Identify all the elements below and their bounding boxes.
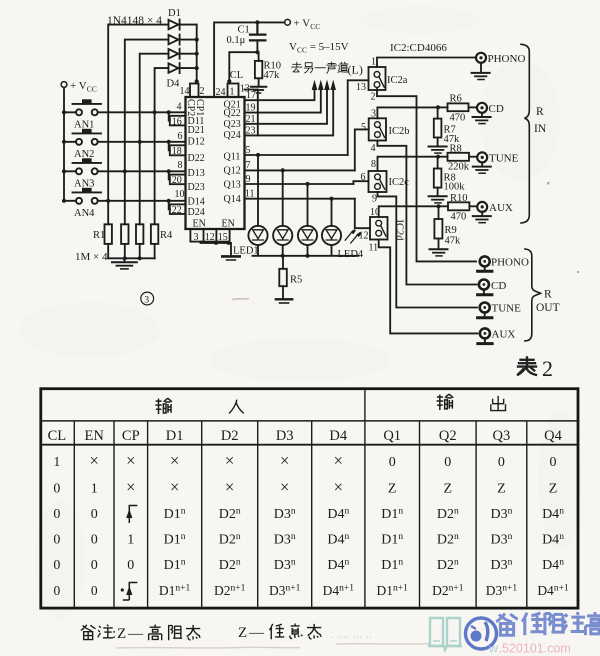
svg-text:1: 1: [91, 481, 98, 496]
LED LED2: [273, 226, 292, 245]
jack TUNE input: [477, 152, 487, 162]
junction dots on cathode bus: [195, 38, 199, 84]
svg-text:47k: 47k: [445, 236, 462, 247]
junction dot below C1: [255, 50, 259, 54]
right pin ladder boxes 17 19 21 23: [245, 90, 258, 137]
wire IC2d pin11 to AUX output: [379, 240, 478, 334]
IC U1 internal pin names: [185, 99, 241, 230]
wire IC2c control from Q13: [353, 181, 368, 184]
svg-text:1: 1: [371, 57, 376, 68]
ground R5: [276, 299, 292, 303]
table data row 5: [53, 558, 564, 574]
label AUX output: [492, 329, 516, 341]
pin 9 label: [372, 194, 377, 205]
label TUNE output: [492, 303, 522, 315]
svg-text:1: 1: [230, 87, 235, 98]
svg-text:2: 2: [200, 86, 205, 97]
wire LED4 from Q14: [331, 199, 333, 226]
svg-text:AN4: AN4: [74, 208, 95, 219]
svg-text:D14: D14: [188, 196, 205, 207]
jack PHONO output: [480, 256, 490, 266]
pushbutton AN1: [64, 99, 185, 115]
diode D3: [169, 49, 197, 59]
label TUNE input: [489, 153, 519, 165]
label PHONO input: [488, 53, 526, 65]
jack CD input: [477, 103, 487, 113]
wire IC2b control from Q12: [355, 129, 369, 170]
svg-text:Q13: Q13: [224, 180, 241, 191]
svg-text:1: 1: [53, 455, 60, 470]
ground R8 vertical: [429, 196, 447, 203]
pin box 22: [170, 204, 186, 216]
wire IC2b pin3 to R6 junction: [377, 107, 438, 118]
label AN1: [74, 120, 94, 131]
svg-text:EN: EN: [85, 428, 105, 444]
svg-text:R8: R8: [450, 144, 462, 155]
svg-text:Q24: Q24: [224, 130, 241, 141]
label R OUT: [536, 289, 560, 315]
svg-text:CD: CD: [491, 280, 506, 292]
svg-text:3: 3: [371, 108, 376, 119]
svg-text:×: ×: [334, 477, 343, 496]
svg-text:0: 0: [53, 558, 60, 573]
ground AUX input: [473, 212, 491, 223]
svg-text:10: 10: [175, 189, 185, 200]
svg-text:TUNE: TUNE: [492, 303, 522, 315]
ground CD input: [473, 113, 491, 124]
svg-text:×: ×: [225, 451, 234, 470]
svg-text:470: 470: [450, 113, 466, 124]
pin number 9: [246, 174, 251, 185]
svg-text:0: 0: [389, 455, 396, 470]
svg-text:D12: D12: [188, 137, 205, 148]
svg-text:Q23: Q23: [224, 119, 241, 130]
label R10: [264, 61, 282, 72]
watermark open book icon: [428, 618, 462, 650]
label 0.1u: [227, 35, 246, 46]
table data row 6: [54, 583, 98, 598]
faint specks: [547, 182, 579, 273]
ground AUX output: [478, 338, 492, 343]
pin 2 label: [371, 92, 376, 103]
svg-text:IC2:CD4066: IC2:CD4066: [390, 42, 447, 54]
svg-text:4: 4: [177, 102, 182, 113]
svg-text:PHONO: PHONO: [488, 53, 526, 65]
watermark CJK characters: [496, 612, 600, 635]
svg-text:×: ×: [225, 477, 234, 496]
table 2 outer border: [41, 389, 578, 608]
label D1: [168, 8, 181, 19]
svg-text:Q11: Q11: [224, 152, 241, 163]
ground for EN pins: [222, 256, 239, 260]
table column header row: [48, 428, 563, 444]
svg-text:Z: Z: [388, 481, 397, 496]
diode D2: [169, 35, 197, 45]
junction dots LED bus: [281, 254, 310, 258]
svg-text:0: 0: [498, 455, 505, 470]
label R7: [444, 125, 456, 136]
svg-text:D1: D1: [168, 8, 181, 19]
label 100k: [444, 182, 466, 193]
label R5: [290, 275, 302, 286]
svg-text:Z: Z: [238, 625, 247, 641]
ground TUNE output: [478, 313, 492, 318]
pin box 14/2 on IC top: [180, 84, 205, 98]
label AN2: [74, 149, 94, 160]
pin box 16: [170, 116, 186, 128]
junction dot above pin1 box: [227, 79, 231, 83]
pin number 4: [177, 102, 182, 113]
label IC2d vertical: [394, 220, 405, 242]
svg-text:D3: D3: [276, 428, 294, 444]
pin 8 label: [371, 159, 376, 170]
pin number 11: [245, 189, 255, 200]
resistor R7: [434, 107, 442, 146]
svg-text:×: ×: [90, 451, 99, 470]
watermark url text: [488, 642, 571, 656]
svg-text:15: 15: [218, 232, 228, 243]
svg-text:0: 0: [91, 583, 98, 598]
table column lines: [74, 390, 527, 608]
ground below R1-R4: [112, 258, 137, 269]
svg-text:6: 6: [178, 131, 183, 142]
pin 11 label: [369, 243, 379, 254]
svg-text:18: 18: [172, 146, 182, 157]
faint ghost print: [330, 626, 372, 641]
svg-text:(L): (L): [348, 63, 363, 77]
resistor R3: [136, 224, 143, 258]
svg-text:D4: D4: [167, 79, 181, 90]
svg-text:CP1: CP1: [194, 99, 205, 116]
svg-text:4: 4: [371, 143, 376, 154]
svg-text:13: 13: [356, 82, 366, 93]
table header output label CJK: [437, 394, 506, 411]
wire column 4 from D4 anode to R4: [155, 68, 169, 224]
label 47k: [444, 134, 461, 145]
label 470: [451, 212, 467, 223]
label 1M x 4: [75, 251, 108, 263]
table data row 1: [53, 451, 556, 470]
resistor R9: [434, 206, 442, 249]
svg-text:0: 0: [54, 583, 61, 598]
svg-text::: :: [112, 626, 116, 642]
wire Q14 from IC1 pin 11: [245, 198, 355, 200]
wire Q23 pin 21 to channel L arrow: [245, 80, 330, 124]
ground below R10: [251, 87, 266, 93]
table data row 3: [53, 507, 97, 522]
watermark circle logo: [466, 618, 497, 649]
resistor R2: [121, 224, 128, 258]
pin number 7: [246, 160, 251, 171]
svg-text:IC2a: IC2a: [387, 75, 408, 86]
svg-text:470: 470: [451, 212, 467, 223]
svg-text:LED4: LED4: [338, 249, 364, 260]
resistor R8 horizontal: [438, 153, 476, 161]
label 470: [450, 113, 466, 124]
wire Q11 from IC1 pin 5: [245, 154, 348, 156]
wire diode cathode bus: [196, 25, 198, 84]
wire Q13 from IC1 pin 9: [245, 183, 354, 185]
label D4: [167, 79, 181, 90]
table data row 4: [53, 532, 564, 548]
svg-text:16: 16: [172, 116, 182, 127]
pin boxes 3 12 15 on IC bottom: [190, 229, 229, 243]
wire LED2 from Q12: [282, 170, 284, 225]
svg-text:2: 2: [542, 356, 553, 381]
pin 13 label: [356, 82, 366, 93]
svg-text:D24: D24: [188, 207, 205, 218]
label AUX input: [489, 202, 513, 214]
svg-text:.520101.com: .520101.com: [499, 642, 571, 656]
wire tie pin8 to pin20 box: [169, 171, 170, 179]
wire LED cathode bus: [253, 245, 359, 256]
wire Q12 from IC1 pin 7: [245, 169, 355, 171]
svg-text:×: ×: [280, 451, 289, 470]
svg-text:3: 3: [194, 232, 199, 243]
wire IC2a control from Q11: [348, 80, 369, 155]
Vcc terminal left: [61, 80, 97, 94]
label R IN: [534, 106, 547, 135]
pin 6 label: [361, 172, 366, 183]
resistor R10 horizontal: [439, 202, 477, 210]
LED4 light emission arrows: [345, 229, 361, 243]
pin box 1 on IC top with labels 24 and 13: [216, 84, 250, 99]
label R6: [450, 94, 462, 105]
pin 10 label: [370, 207, 380, 218]
label R9: [445, 225, 457, 236]
wire IC2b pin4 to CD output: [377, 141, 476, 285]
svg-text:0: 0: [91, 533, 98, 548]
junction dots on Vcc bus: [62, 110, 66, 203]
label 220k: [448, 162, 470, 173]
label LED1: [233, 246, 259, 257]
jack AUX output: [480, 328, 490, 338]
svg-text:Q12: Q12: [224, 166, 241, 177]
svg-text:CP: CP: [122, 428, 140, 444]
analog switch IC2c: [369, 171, 387, 192]
svg-text:220k: 220k: [448, 162, 470, 173]
svg-text:Q22: Q22: [224, 108, 241, 119]
svg-text:×: ×: [334, 451, 343, 470]
label Vcc range: [289, 41, 349, 55]
label R8: [450, 144, 462, 155]
svg-text:EN: EN: [193, 219, 206, 230]
ground R7: [429, 147, 447, 154]
wire column 3 from D3 anode to R3: [140, 54, 169, 225]
svg-text:R10: R10: [450, 193, 468, 204]
wrap: [40, 389, 580, 608]
jack PHONO input: [476, 53, 486, 63]
pin 5 label: [361, 122, 366, 133]
wire EN pins to ground: [201, 242, 232, 256]
resistor R6: [438, 103, 476, 111]
ground PHONO output: [478, 266, 492, 271]
junction dots on resistor bus: [123, 256, 142, 260]
analog switch IC2b: [369, 118, 386, 140]
pushbutton AN3: [64, 158, 185, 174]
svg-text:R1: R1: [93, 230, 105, 241]
label 1N4148x4 for diodes: [107, 15, 162, 27]
pin box 18: [170, 145, 186, 157]
wire IC2a pin1 to PHONO input: [377, 58, 476, 68]
svg-text:×: ×: [126, 451, 135, 470]
svg-text:11: 11: [369, 243, 379, 254]
svg-text:D13: D13: [188, 168, 205, 179]
wire Q24 pin 23 to channel L arrow: [245, 80, 337, 136]
svg-text:D1: D1: [166, 428, 184, 444]
svg-text:3: 3: [144, 296, 149, 306]
svg-text:D2: D2: [221, 428, 239, 444]
label CL: [230, 70, 243, 81]
pin 12 label: [359, 231, 369, 242]
svg-text:R: R: [544, 289, 552, 301]
brace R IN: [521, 44, 529, 223]
pin box 20: [170, 175, 186, 187]
junction dot LED3: [305, 182, 309, 186]
wire IC2d pin10 to R10 junction: [379, 206, 439, 217]
jack AUX input: [477, 202, 487, 212]
svg-text:D21: D21: [188, 125, 205, 136]
wire IC2d control from Q14: [355, 199, 370, 229]
svg-text:0: 0: [91, 507, 98, 522]
pin 4 label: [371, 143, 376, 154]
svg-text:. .... ... ..: . .... ... ..: [330, 626, 372, 641]
svg-text:IN: IN: [534, 123, 547, 135]
svg-text:EN: EN: [222, 219, 235, 230]
svg-text:LED1: LED1: [233, 246, 259, 257]
label LED4: [338, 249, 364, 260]
junction dots button rows to columns: [106, 110, 171, 203]
svg-text:0: 0: [53, 507, 60, 522]
svg-text:R: R: [536, 106, 544, 118]
IC U1 CD4508 body: [186, 97, 245, 229]
svg-text:100k: 100k: [444, 182, 466, 193]
wire Q22 pin 19 to channel L arrow: [245, 80, 324, 113]
svg-text:Q2: Q2: [439, 428, 457, 444]
svg-text:1M × 4: 1M × 4: [75, 251, 108, 263]
label AN3: [74, 179, 94, 190]
svg-text:8: 8: [371, 159, 376, 170]
svg-text:R9: R9: [445, 225, 457, 236]
svg-text:17: 17: [246, 90, 256, 101]
table header separator lines: [40, 421, 580, 445]
pin number 6: [178, 131, 183, 142]
diode D1: [169, 20, 197, 30]
svg-text:w: w: [488, 642, 499, 656]
svg-text:IC2b: IC2b: [389, 126, 410, 137]
table data row 2: [53, 477, 557, 496]
wire tie pin10 to pin22 box: [169, 201, 170, 209]
remark note line CJK: [81, 624, 321, 641]
wire left Vcc bus: [63, 87, 65, 200]
svg-text:CL: CL: [48, 428, 67, 444]
svg-text:PHONO: PHONO: [491, 257, 529, 269]
svg-text:9: 9: [372, 194, 377, 205]
svg-text:AUX: AUX: [489, 202, 513, 214]
wire LED1 from Q11: [257, 155, 259, 226]
svg-text:Q1: Q1: [383, 428, 401, 444]
label 47k: [264, 70, 281, 81]
label R1: [93, 230, 105, 241]
pin 3 label: [371, 108, 376, 119]
svg-text:R6: R6: [450, 94, 462, 105]
resistor R8 vertical 100k: [434, 157, 442, 196]
Vcc terminal top: [285, 18, 321, 32]
junction dot R10: [436, 204, 440, 208]
junction dot R8: [436, 155, 440, 159]
junction dot R6 R7: [436, 105, 440, 109]
svg-text:0.1μ: 0.1μ: [227, 35, 246, 46]
label 47k: [445, 236, 462, 247]
svg-text:—: —: [127, 626, 144, 642]
pin number 8: [178, 160, 183, 171]
svg-text:22: 22: [172, 205, 182, 216]
pin number 10: [175, 189, 185, 200]
ground PHONO input: [472, 63, 490, 80]
label IC2c: [389, 177, 410, 188]
jack TUNE output: [480, 303, 490, 313]
label IC2 CD4066: [390, 42, 447, 54]
junction dot LED2: [281, 168, 285, 172]
svg-text:2: 2: [371, 92, 376, 103]
svg-text:47k: 47k: [264, 70, 281, 81]
label CD input: [489, 103, 504, 115]
resistor R4: [151, 224, 158, 258]
svg-text:TUNE: TUNE: [489, 153, 519, 165]
wire column 2 from D2 anode to R2: [125, 40, 169, 225]
svg-text:12: 12: [359, 231, 369, 242]
label to other channel L (CJK): [292, 62, 349, 73]
wire node to CL pin 1: [229, 52, 257, 83]
svg-text:AUX: AUX: [492, 329, 516, 341]
label C1: [238, 25, 250, 36]
svg-text:0: 0: [53, 481, 60, 496]
svg-text:12: 12: [205, 232, 215, 243]
diode D4: [169, 63, 197, 73]
table header input label CJK: [155, 398, 243, 414]
pin number 5: [246, 145, 251, 156]
ground TUNE input: [473, 162, 491, 173]
svg-text:0: 0: [91, 558, 98, 573]
wire IC2c pin8 to R8 junction: [378, 157, 439, 171]
svg-text:8: 8: [178, 160, 183, 171]
svg-text:D4: D4: [329, 428, 347, 444]
svg-text:—: —: [248, 625, 265, 641]
svg-text:5: 5: [361, 122, 366, 133]
svg-text:Z: Z: [549, 481, 558, 496]
figure number circled 3: [141, 292, 154, 306]
LED LED3: [298, 226, 317, 245]
svg-text:OUT: OUT: [536, 302, 560, 314]
svg-text:Z: Z: [117, 626, 126, 642]
junction dot LED4: [329, 197, 333, 201]
pin 1 label: [371, 57, 376, 68]
svg-text:Z: Z: [497, 481, 506, 496]
svg-text:20: 20: [172, 175, 182, 186]
svg-text:IC2d: IC2d: [394, 220, 405, 242]
svg-text:D22: D22: [188, 153, 205, 164]
capacitor C1: [250, 22, 265, 52]
svg-text:14: 14: [180, 86, 190, 97]
wire tie pin4 to pin16 box: [169, 112, 170, 120]
label IC2a: [387, 75, 408, 86]
svg-text:Z: Z: [444, 481, 453, 496]
pushbutton AN2: [64, 129, 185, 145]
svg-text:Q4: Q4: [544, 428, 562, 444]
pushbutton AN4: [64, 188, 185, 204]
svg-text:1: 1: [127, 533, 134, 548]
jack CD output: [479, 280, 489, 290]
